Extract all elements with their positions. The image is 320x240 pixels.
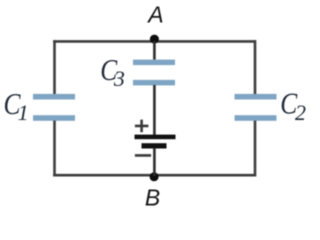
wire: middle branch upper segment (node A to C3 top plate) xyxy=(153,41,156,60)
svg-text:3: 3 xyxy=(113,66,125,91)
wire: bottom rail from bottom-left corner to bottom-right corner xyxy=(53,174,256,177)
label C1 xyxy=(4,88,29,125)
node A junction dot xyxy=(150,35,159,44)
wire: right side lower segment (C2 bottom plate to bottom-right corner) xyxy=(254,121,257,177)
wire: left side lower segment (C1 bottom plate to bottom-left corner) xyxy=(53,121,56,177)
wire: middle branch segment (C3 bottom plate to battery positive plate) xyxy=(153,85,156,135)
node B junction dot xyxy=(150,172,159,181)
wire: top rail from top-left corner to top-right corner xyxy=(53,40,256,43)
wire: right side upper segment (top-right corner to C2 top plate) xyxy=(254,40,257,94)
battery: negative terminal short plate xyxy=(142,143,167,148)
capacitor C1 plates xyxy=(33,94,75,121)
battery: positive terminal long plate xyxy=(135,135,176,140)
svg-text:1: 1 xyxy=(18,100,29,125)
svg-text:B: B xyxy=(145,185,160,211)
capacitor C3 plates xyxy=(133,60,175,86)
svg-text:2: 2 xyxy=(295,100,306,125)
battery polarity label - xyxy=(135,154,151,157)
label C2 xyxy=(280,87,306,125)
battery polarity label + xyxy=(135,120,149,133)
label C3 xyxy=(100,54,125,91)
capacitor C2 plates xyxy=(235,94,277,121)
wire: middle branch lower segment (battery negative plate to node B) xyxy=(153,148,156,176)
svg-text:A: A xyxy=(146,2,163,28)
wire: left side upper segment (top-left corner to C1 top plate) xyxy=(53,40,56,94)
